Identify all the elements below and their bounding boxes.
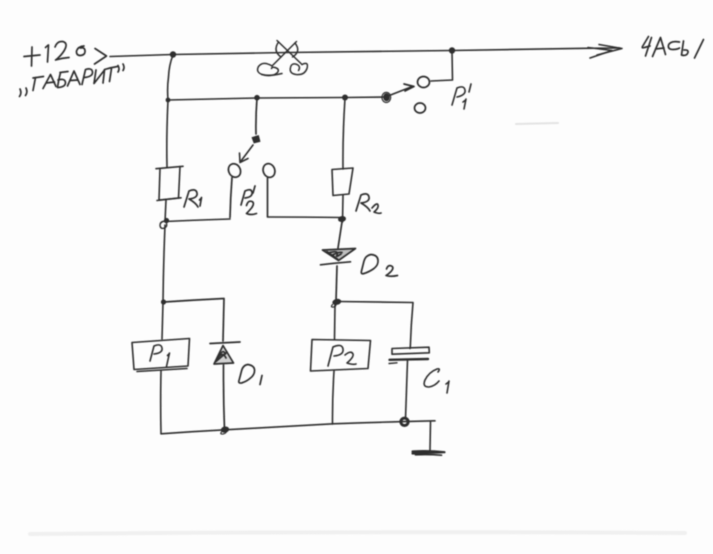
arrow to ЧАСЫ — [588, 45, 622, 59]
label +12V supply — [24, 41, 85, 66]
wire second rail — [168, 97, 386, 100]
wire P2' control drop — [256, 98, 257, 134]
wire R2 to D2 — [338, 222, 342, 248]
wire P2' right to R2 bottom — [268, 216, 343, 219]
label ЧАСЫ — [642, 37, 703, 59]
wire R1 node to P2' left — [165, 219, 230, 222]
wire P1' feed drop — [431, 51, 453, 81]
capacitor C1 bottom plate — [390, 358, 429, 361]
switch P2' left contact — [226, 162, 243, 180]
wire left vertical upper — [167, 55, 173, 167]
label P2' — [241, 186, 257, 215]
junction C1 bottom — [401, 418, 408, 425]
junction D1 bottom — [220, 426, 229, 434]
wire R1 bottom to junction — [165, 200, 166, 222]
resistor R1 — [156, 166, 183, 200]
wire node to C1 branch — [338, 302, 413, 349]
switch P1' top contact — [418, 77, 430, 88]
wire branch to D1 — [164, 299, 224, 342]
wire node to P2 — [334, 303, 337, 340]
scissors cut mark — [258, 41, 308, 76]
label D2 — [361, 255, 397, 277]
capacitor C1 top plate — [392, 347, 429, 354]
resistor R2 — [332, 168, 353, 196]
diode D1 — [210, 342, 240, 430]
junction P1' arm pivot — [383, 93, 390, 101]
ground — [413, 422, 445, 455]
label D1 — [239, 365, 262, 385]
label R1 — [184, 190, 202, 207]
chevron input terminal — [95, 49, 107, 65]
wire D2 to node — [336, 266, 337, 301]
junction R1 bottom — [164, 218, 169, 223]
junction node D2 bottom — [332, 298, 342, 306]
wire C1 bottom — [406, 361, 408, 420]
wire P2' left stem — [230, 178, 232, 218]
wire R2 bottom — [342, 195, 345, 222]
junction P2' drop — [254, 95, 260, 101]
wire into P1 — [162, 302, 163, 339]
junction second rail left — [166, 98, 171, 103]
label R2 — [356, 194, 381, 213]
switch P2' right contact — [261, 162, 277, 179]
relay coil P1 — [132, 339, 190, 372]
label P2 — [328, 345, 356, 366]
diode D2 — [321, 249, 356, 265]
label ГАБАРИТ net — [20, 64, 125, 97]
switch P2' actuator arrow — [240, 145, 254, 163]
relay coil P2 — [311, 340, 371, 372]
wire left vertical to P1 branch — [163, 225, 165, 302]
wire P2' right stem — [267, 178, 269, 217]
junction top-right (P1' feed) — [449, 47, 455, 53]
label P1 — [150, 345, 170, 367]
wire bottom rail — [161, 421, 435, 434]
switch P1' lower contact — [415, 103, 426, 113]
wire P2 bottom — [332, 371, 334, 424]
wire R2 top drop — [343, 98, 345, 169]
label P1' — [452, 84, 471, 109]
junction R2 top — [342, 95, 348, 101]
junction top-left node A — [170, 51, 176, 57]
wire P1 bottom — [160, 371, 162, 434]
junction left mid — [161, 299, 166, 304]
wire top rail — [110, 48, 620, 57]
label C1 — [424, 369, 449, 393]
switch P1' arm with arrow — [388, 84, 414, 96]
junction R2 bottom — [337, 215, 346, 223]
switch P2' actuator blob — [252, 136, 260, 144]
